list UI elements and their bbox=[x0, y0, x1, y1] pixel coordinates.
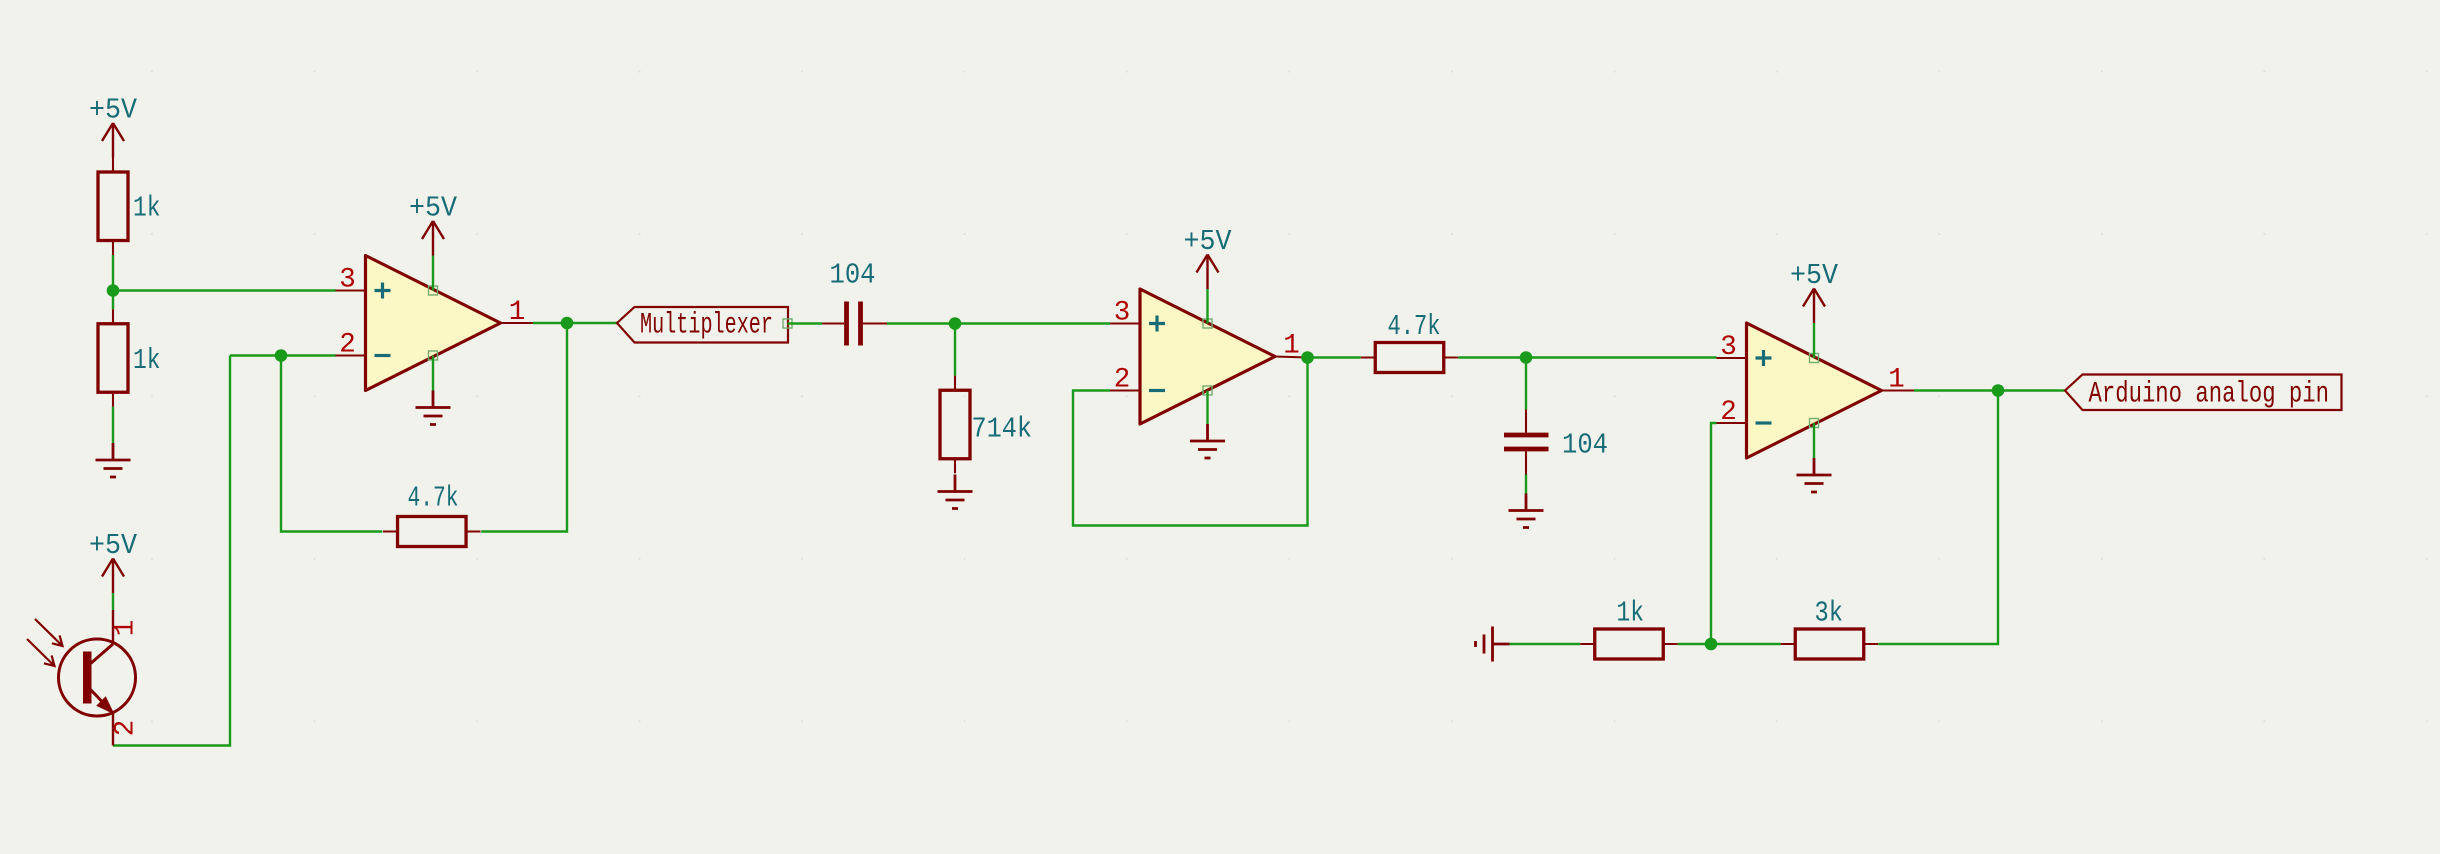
svg-text:1k: 1k bbox=[133, 192, 161, 225]
node C1/R714k junction bbox=[949, 317, 962, 330]
resistor R? 3k (gain) bbox=[1781, 597, 1879, 660]
wire U3 output bbox=[1914, 389, 2065, 391]
wire 1k to 3k bbox=[1678, 643, 1781, 645]
label Multiplexer bbox=[617, 307, 792, 343]
resistor R? 4.7k (U2 out) bbox=[1361, 310, 1459, 373]
power +5V (op-amp U1) bbox=[409, 192, 458, 256]
wire feedback down from output bbox=[481, 323, 567, 532]
wire R4.7k to op-amp U3 pin3 bbox=[1458, 356, 1716, 358]
resistor R? 1k (upper divider) bbox=[98, 158, 161, 256]
resistor R? 714k bbox=[940, 376, 1032, 474]
wire junction up to U3 pin2 bbox=[1711, 423, 1717, 644]
svg-text:2: 2 bbox=[339, 330, 356, 361]
node divider mid junction bbox=[107, 284, 120, 297]
svg-text:3: 3 bbox=[339, 265, 356, 296]
capacitor C? 104 (filter) bbox=[1504, 410, 1608, 475]
ground (C2) bbox=[1509, 494, 1544, 528]
node U2 output junction bbox=[1301, 351, 1314, 364]
ground (op-amp U2) bbox=[1190, 424, 1225, 458]
resistor R? 4.7k (feedback U1) bbox=[383, 482, 481, 547]
svg-text:4.7k: 4.7k bbox=[408, 482, 459, 515]
svg-text:3: 3 bbox=[1114, 298, 1131, 329]
wire C2 to ground bbox=[1525, 475, 1527, 494]
wire label to C1 bbox=[788, 322, 823, 324]
node feedback junction pin2 bbox=[275, 349, 288, 362]
power +5V (op-amp U2) bbox=[1184, 225, 1233, 289]
svg-text:3: 3 bbox=[1720, 332, 1737, 363]
wire ground to 1k bbox=[1510, 643, 1581, 645]
svg-text:2: 2 bbox=[1114, 365, 1131, 396]
wire feedback left segment bbox=[113, 356, 382, 746]
ground (op-amp U1) bbox=[416, 391, 451, 425]
power +5V (op-amp U3) bbox=[1790, 259, 1839, 323]
svg-text:1: 1 bbox=[1888, 365, 1905, 396]
svg-text:+5V: +5V bbox=[89, 94, 138, 127]
svg-text:104: 104 bbox=[830, 259, 876, 292]
wire V- U3 to ground bbox=[1813, 423, 1815, 458]
wire C1 to op-amp U2 pin3 bbox=[887, 322, 1110, 324]
wire V- U2 to ground bbox=[1206, 391, 1208, 425]
wire U1 output bbox=[533, 322, 617, 324]
node gain junction bbox=[1705, 638, 1718, 651]
svg-text:Arduino analog pin: Arduino analog pin bbox=[2089, 378, 2330, 412]
wire V+ U2 bbox=[1206, 289, 1208, 324]
node U1 output junction bbox=[561, 317, 574, 330]
wire V- U1 to ground bbox=[432, 356, 434, 391]
resistor R? 1k (gain) bbox=[1580, 597, 1678, 660]
svg-text:2: 2 bbox=[1720, 397, 1737, 428]
wire divider to op-amp pin3 bbox=[113, 289, 336, 291]
ground (714k) bbox=[938, 475, 973, 509]
wire down to 714k bbox=[954, 324, 956, 376]
wire divider to ground bbox=[112, 407, 114, 443]
svg-text:+5V: +5V bbox=[409, 192, 458, 225]
svg-text:1: 1 bbox=[1283, 331, 1300, 362]
wire +5V to Q1 pin1 bbox=[112, 593, 114, 610]
svg-text:3k: 3k bbox=[1815, 597, 1844, 630]
svg-text:1: 1 bbox=[111, 620, 142, 637]
wire V+ U3 bbox=[1813, 323, 1815, 358]
wire down to C2 bbox=[1525, 358, 1527, 410]
label Arduino analog pin bbox=[2065, 375, 2342, 412]
phototransistor Q1 bbox=[27, 610, 142, 746]
ground (divider) bbox=[96, 443, 131, 477]
op-amp U3 bbox=[1717, 323, 1915, 458]
capacitor C? 104 (series) bbox=[822, 259, 887, 346]
wire divider mid bbox=[112, 255, 114, 309]
power +5V (phototransistor) bbox=[89, 529, 138, 593]
node U3 output junction bbox=[1992, 384, 2005, 397]
svg-text:4.7k: 4.7k bbox=[1388, 310, 1441, 343]
node RC junction bbox=[1520, 351, 1533, 364]
svg-text:+5V: +5V bbox=[1184, 225, 1233, 258]
svg-text:+5V: +5V bbox=[1790, 259, 1839, 292]
svg-text:2: 2 bbox=[111, 720, 142, 737]
svg-text:1k: 1k bbox=[1617, 597, 1645, 630]
ground (gain network, rotated) bbox=[1476, 627, 1510, 662]
svg-text:Multiplexer: Multiplexer bbox=[640, 309, 773, 343]
svg-text:1k: 1k bbox=[133, 344, 161, 377]
wire V+ U1 bbox=[432, 256, 434, 291]
wire U2 output to R 4.7k bbox=[1308, 356, 1361, 358]
power +5V (divider top) bbox=[89, 94, 138, 158]
svg-text:714k: 714k bbox=[972, 413, 1033, 446]
svg-text:1: 1 bbox=[509, 297, 526, 328]
op-amp U2 bbox=[1110, 289, 1308, 424]
wire 3k to output node bbox=[1878, 391, 1998, 645]
ground (op-amp U3) bbox=[1797, 458, 1832, 492]
wire U2 feedback loop bbox=[1073, 358, 1308, 526]
resistor R? 1k (lower divider) bbox=[98, 309, 161, 407]
svg-text:+5V: +5V bbox=[89, 529, 138, 562]
svg-text:104: 104 bbox=[1562, 429, 1608, 462]
op-amp U1 bbox=[336, 256, 534, 391]
